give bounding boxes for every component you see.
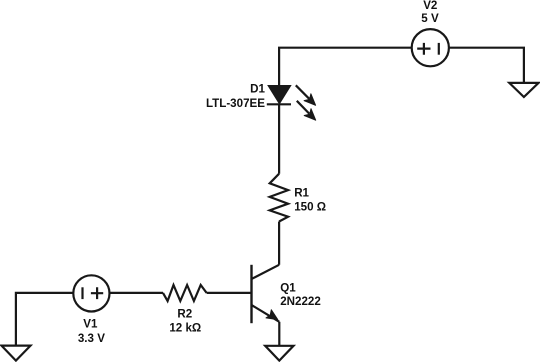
wire: R1 to Q1 collector [278,222,280,265]
ground (bottom left) [2,346,31,361]
transistor Q1 collector lead [252,265,280,279]
transistor Q1 emitter arrowhead [266,310,278,320]
wire: R2 to V1 right terminal [110,292,164,294]
LED D1 cathode bar [267,103,291,105]
svg-text:V2: V2 [423,0,437,12]
svg-text:R2: R2 [177,307,192,320]
svg-text:3.3 V: 3.3 V [78,332,105,345]
svg-text:LTL-307EE: LTL-307EE [206,97,265,110]
svg-text:D1: D1 [250,83,265,96]
svg-text:150 Ω: 150 Ω [294,200,326,213]
svg-text:5 V: 5 V [421,12,439,25]
V1 minus terminal bar [81,287,83,299]
wire: V1 left terminal to bottom-left corner down to ground [16,293,73,346]
LED D1 emission arrow 2 [297,101,316,120]
wire: LED cathode down to R1 [278,104,280,173]
LED D1 emission arrow 1 [296,85,316,105]
ground (top right) [509,83,538,97]
svg-text:R1: R1 [294,186,309,199]
wire: Q1 emitter down to ground [278,322,280,346]
V2 plus symbol [417,43,430,55]
transistor Q1 emitter lead [252,305,280,322]
V2 minus terminal bar [438,43,440,55]
svg-text:Q1: Q1 [280,281,296,294]
V1 plus symbol [91,287,103,299]
LED D1 triangle (anode) [268,86,290,104]
resistor R2 (zigzag) [163,285,207,301]
svg-text:12 kΩ: 12 kΩ [169,322,201,335]
svg-text:V1: V1 [83,318,98,331]
wire: Q1 base to R2 [207,292,252,294]
voltage source V1 (circle) [73,275,109,311]
transistor Q1 base bar [250,265,252,323]
ground (emitter) [265,346,293,361]
voltage source V2 (circle) [412,29,449,66]
wire: LED anode up to top rail and across to V2 left terminal [279,48,412,86]
svg-text:2N2222: 2N2222 [280,295,321,308]
resistor R1 (zigzag) [270,174,288,222]
wire: V2 right terminal to top-right corner down to ground [449,48,524,83]
